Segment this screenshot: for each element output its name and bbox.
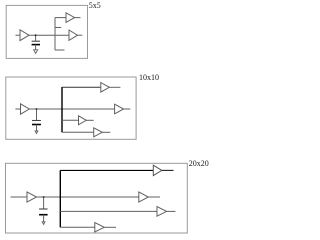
wire top branch d3 xyxy=(60,169,153,171)
wire bottom stub d1 xyxy=(55,49,65,51)
wire main d1 xyxy=(29,34,69,36)
buffer U11 xyxy=(139,192,149,202)
wire bottom branch d2 xyxy=(62,131,94,133)
ground d3 xyxy=(42,222,45,225)
wire out U5 xyxy=(109,86,120,88)
wire out U12 xyxy=(167,210,176,212)
buffer U13 xyxy=(95,223,105,232)
box frame 10x10 xyxy=(6,77,136,139)
wire bus d1 xyxy=(54,18,56,50)
buffer U12 xyxy=(157,207,167,217)
svg-text:5x5: 5x5 xyxy=(89,1,101,10)
ground d2 xyxy=(35,131,38,134)
node n3 xyxy=(43,197,45,209)
wire out U10 xyxy=(162,169,174,171)
wire stub mid d1 xyxy=(55,27,61,29)
box frame 20x20 xyxy=(6,163,188,233)
buffer U6 xyxy=(115,104,124,114)
buffer U7 xyxy=(79,116,87,125)
wire bus d3 xyxy=(59,170,61,227)
wire input d3 xyxy=(11,196,28,198)
buffer U1 xyxy=(20,30,29,41)
buffer U2 xyxy=(66,13,75,23)
capacitor C3 xyxy=(39,209,48,222)
wire mid branch d2 xyxy=(62,119,79,121)
wire top branch d1 xyxy=(55,17,66,19)
capacitor C1 xyxy=(32,41,40,50)
wire out U11 xyxy=(148,196,160,198)
svg-text:10x10: 10x10 xyxy=(139,73,159,82)
wire out U3 xyxy=(78,34,83,36)
wire out U6 xyxy=(124,108,131,110)
wire input d1 xyxy=(16,34,21,36)
wire input d2 xyxy=(15,108,20,110)
capacitor C2 xyxy=(32,121,41,132)
node n1 xyxy=(35,35,37,41)
wire out U2 xyxy=(75,17,81,19)
wire top branch d2 xyxy=(62,86,101,88)
ground d1 xyxy=(34,50,38,54)
wire out U7 xyxy=(86,119,93,121)
wire main d3 xyxy=(37,196,139,198)
buffer U3 xyxy=(69,30,78,40)
buffer U9 xyxy=(27,192,37,202)
wire bus d2 xyxy=(61,87,63,132)
buffer U4 xyxy=(21,104,30,114)
wire third branch d3 xyxy=(60,210,157,212)
wire out U8 xyxy=(102,131,110,133)
buffer U10 xyxy=(153,165,162,175)
box frame 5x5 xyxy=(6,5,87,58)
buffer U8 xyxy=(94,128,103,137)
wire bottom branch d3 xyxy=(60,226,95,228)
buffer U5 xyxy=(101,83,110,93)
wire main d2 xyxy=(29,108,114,110)
svg-text:20x20: 20x20 xyxy=(189,159,209,168)
wire out U13 xyxy=(104,226,116,228)
node n2 xyxy=(36,109,38,121)
